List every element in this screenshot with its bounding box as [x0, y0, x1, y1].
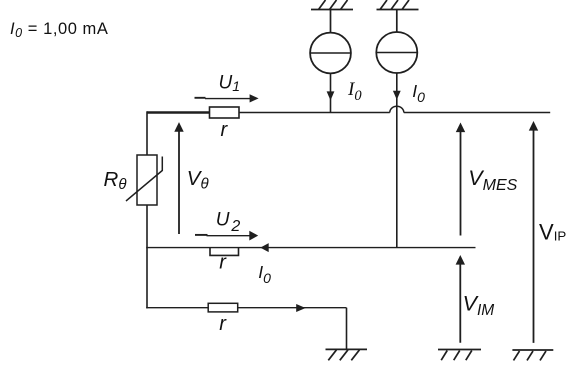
svg-text:I0 = 1,00 mA: I0 = 1,00 mA [10, 20, 108, 40]
